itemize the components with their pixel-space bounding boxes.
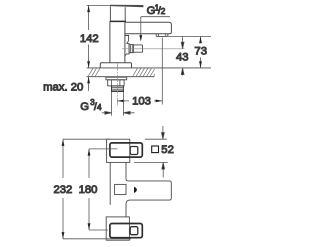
top handle end square: [130, 147, 138, 155]
dim 142 top arrow: [87, 5, 90, 12]
dim 142 bottom arrow: [87, 61, 90, 68]
dim sq52 top extension: [145, 138, 167, 140]
dim 180 bottom extension: [89, 229, 108, 231]
aerator end ticks: [158, 34, 165, 36]
dim sq52 square symbol: [152, 146, 159, 153]
dim 73 bottom arrow: [199, 61, 202, 68]
top handle: [110, 143, 142, 157]
shower outlet step: [125, 36, 129, 44]
mounting nut: [108, 80, 124, 86]
shower outlet nut: [129, 45, 134, 53]
svg-text:43: 43: [176, 51, 189, 63]
dim 232 top extension: [63, 138, 110, 140]
dim 232 bottom extension: [63, 238, 131, 240]
deck top line: [87, 67, 211, 69]
aerator under spout: [156, 34, 168, 37]
svg-text:2: 2: [161, 7, 166, 16]
dim max20 lower arrow: [87, 77, 90, 84]
dim 43 lower arrow: [181, 68, 184, 76]
svg-text:4: 4: [97, 103, 102, 112]
body right edge: [124, 22, 126, 63]
outlet centerline: [122, 48, 185, 50]
dim 232 bottom arrow: [62, 232, 65, 239]
dim 103 left arrow: [117, 100, 124, 103]
dim 103 right extension: [161, 38, 163, 105]
spout outline: [125, 22, 171, 33]
lever neck box: [110, 6, 125, 21]
dim G3/4 left arrow: [102, 111, 112, 114]
dim 73 top arrow: [199, 37, 202, 44]
dim G3/4 right arrow: [123, 111, 134, 114]
dim G3/4 extension lines: [112, 92, 124, 116]
dim sq52 top arrow: [162, 126, 165, 139]
svg-text:103: 103: [132, 95, 151, 107]
dim sq52 bottom arrow: [162, 162, 165, 177]
shower outlet flange: [125, 44, 129, 56]
deck hatching right: [133, 68, 156, 76]
aerator bottom extension: [168, 36, 211, 38]
svg-text:232: 232: [53, 184, 72, 196]
top escutcheon square: [107, 139, 130, 162]
G1/2 leader bar: [141, 16, 170, 18]
dim 232 top arrow: [62, 139, 65, 146]
body top shoulder: [110, 20, 126, 22]
svg-text:G: G: [80, 101, 89, 113]
deck hatching left: [88, 68, 100, 76]
column upper: [110, 162, 126, 205]
svg-text:180: 180: [79, 184, 98, 196]
centerline below shank: [116, 64, 118, 107]
body left edge: [109, 21, 111, 62]
dim 232 line: [62, 139, 64, 239]
dim 142 line: [88, 5, 90, 68]
arm outline: [126, 179, 171, 217]
dim sq52 bottom extension: [134, 161, 168, 163]
dim 180 bottom arrow: [88, 223, 91, 230]
G1/2 leader vertical: [140, 17, 142, 37]
dim 180 top extension: [89, 148, 118, 150]
dim 73 line: [200, 37, 202, 68]
dim 103 line: [117, 100, 162, 102]
spout section square: [115, 184, 126, 194]
base plate: [100, 63, 131, 68]
dim max20 lower line: [88, 77, 90, 91]
threaded shank: [112, 86, 124, 91]
deck bottom line: [87, 76, 155, 78]
bottom escutcheon square: [106, 217, 129, 240]
svg-text:73: 73: [194, 45, 207, 57]
lever blade (side view top): [110, 5, 143, 7]
dim 103 right arrow: [156, 100, 163, 103]
svg-text:142: 142: [80, 33, 99, 45]
dim 43 upper arrow: [181, 37, 184, 49]
dim 180 top arrow: [88, 149, 91, 156]
dim 180 line: [88, 149, 90, 230]
aerator D mark: [134, 187, 137, 193]
svg-text:52: 52: [161, 144, 174, 156]
dim 142 extension line top: [87, 4, 111, 6]
shower outlet nipple: [134, 45, 143, 52]
G1/2 leader arrow: [139, 35, 142, 42]
svg-text:max. 20: max. 20: [43, 81, 83, 93]
bottom handle: [110, 224, 142, 238]
bottom handle end square: [130, 227, 138, 235]
washer under deck: [106, 77, 127, 80]
